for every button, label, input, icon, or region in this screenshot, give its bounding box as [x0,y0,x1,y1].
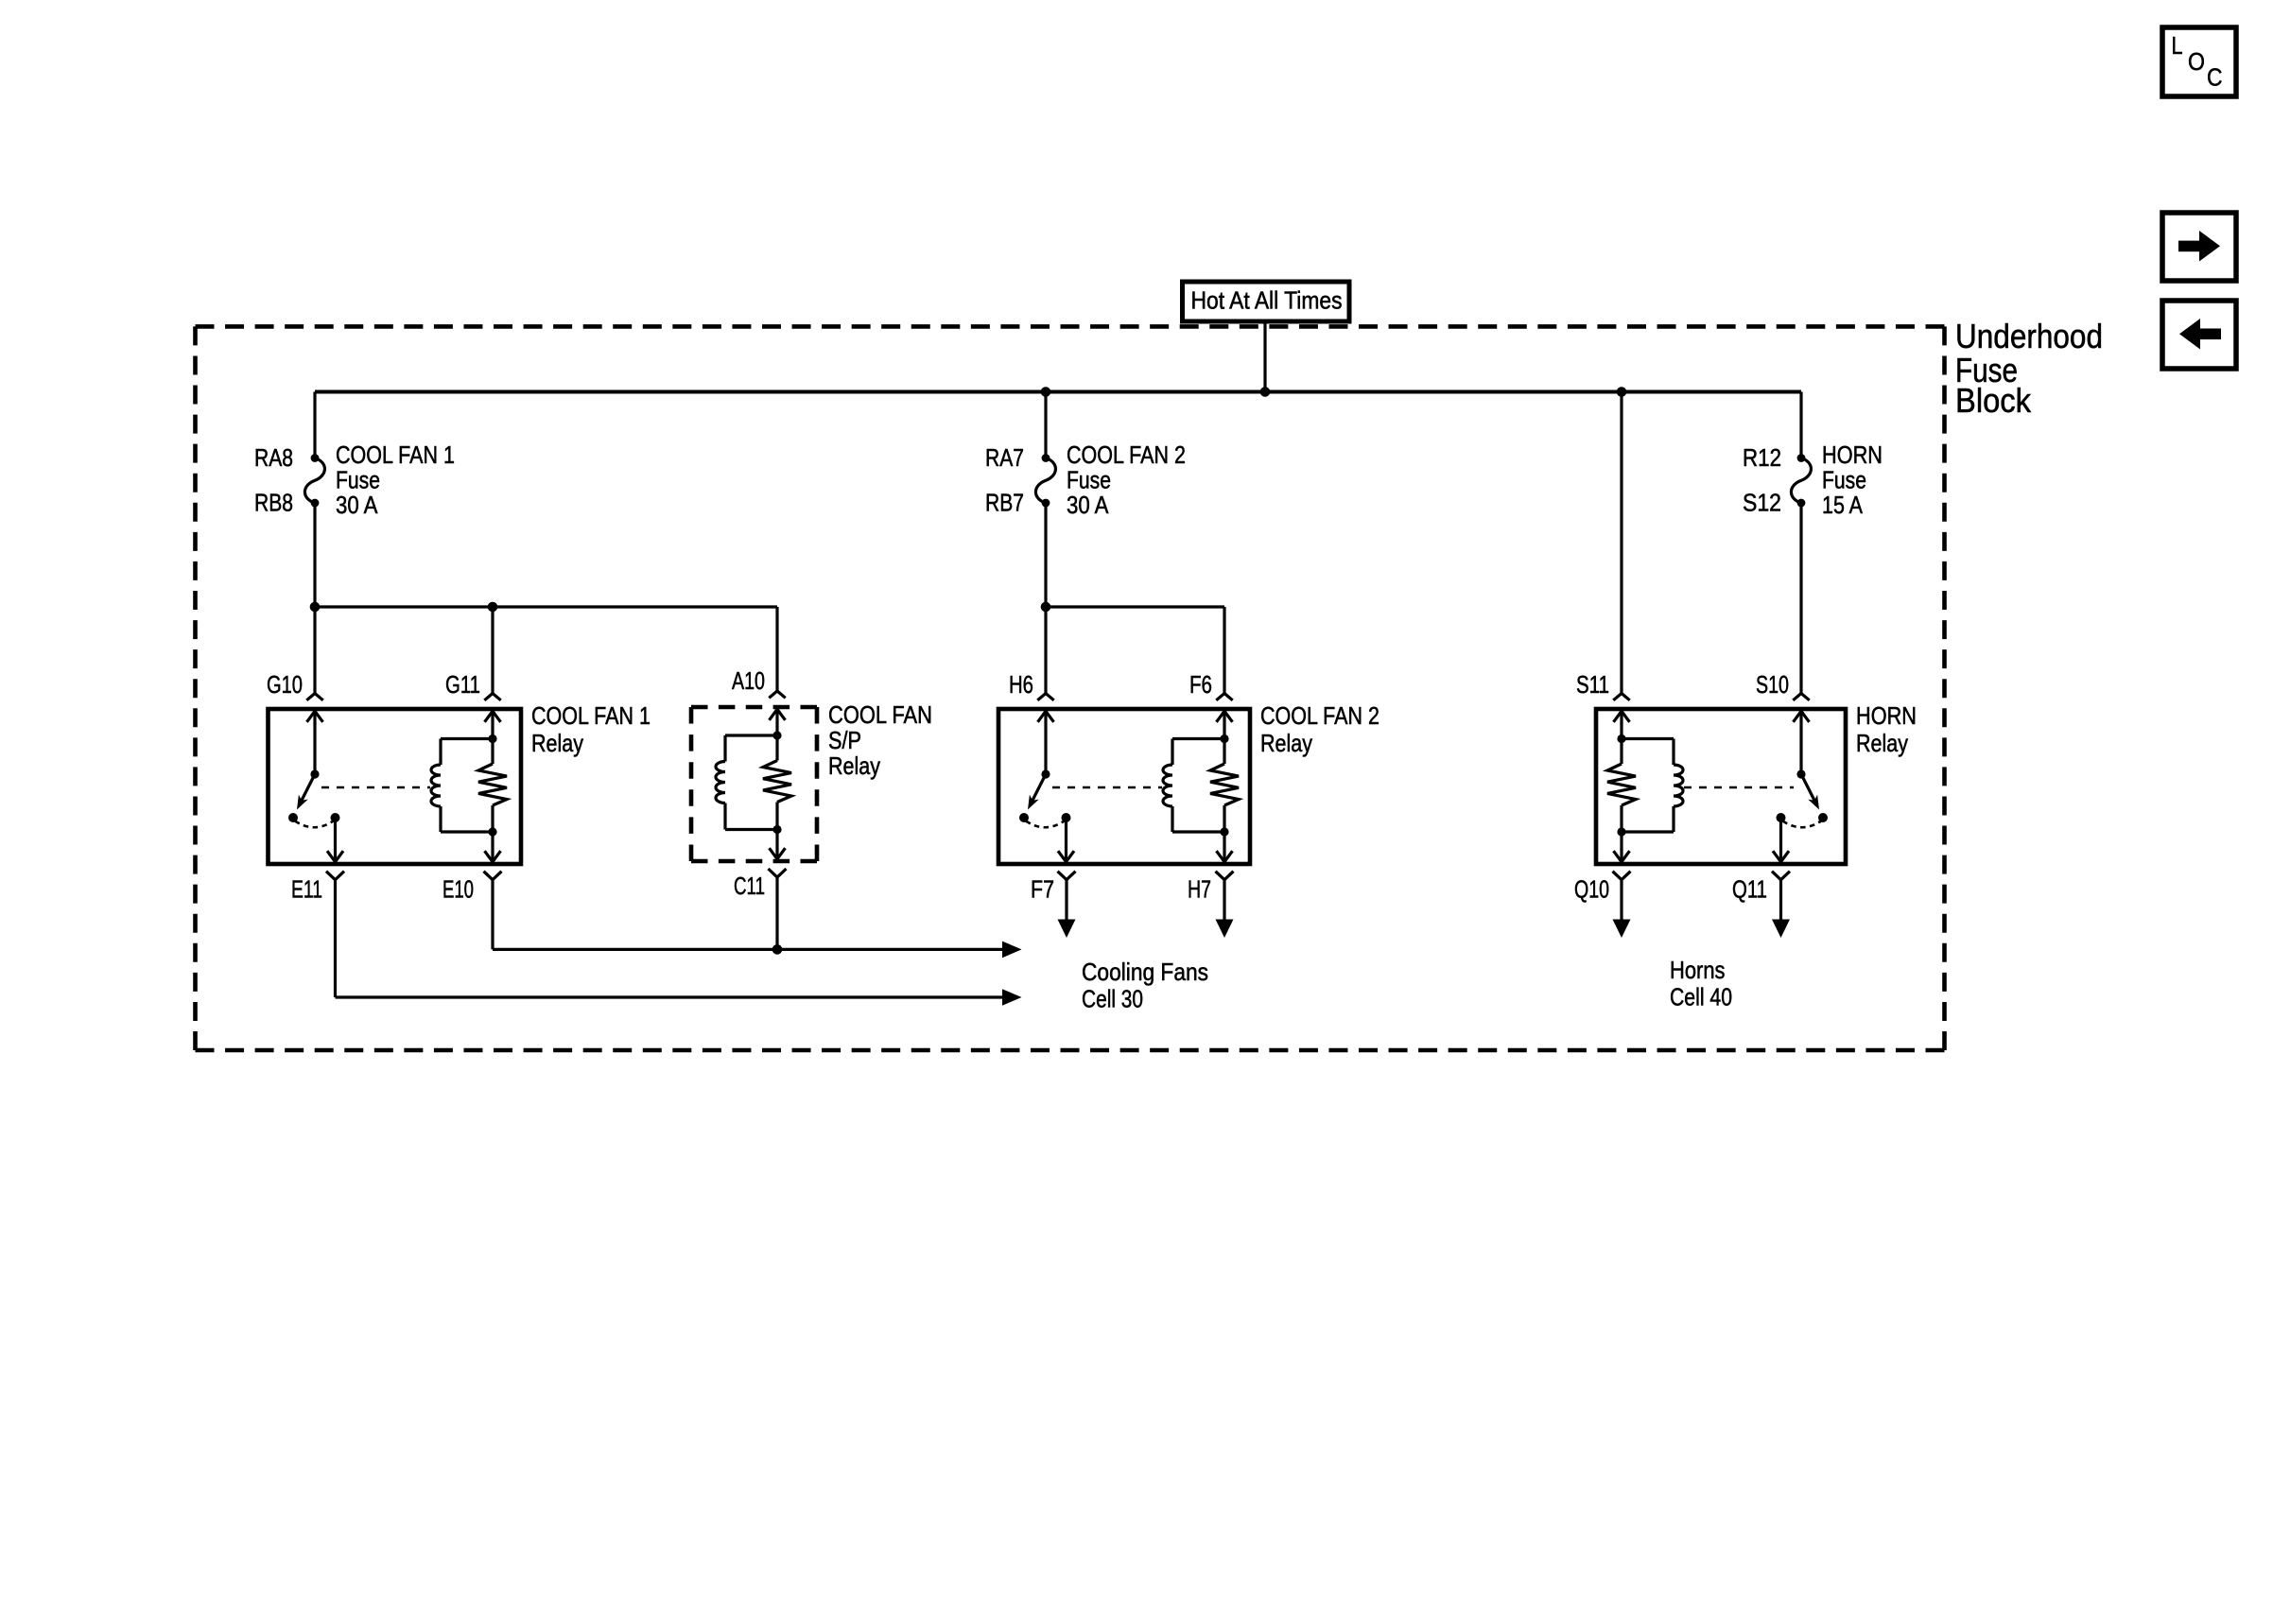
svg-text:Cell 30: Cell 30 [1082,985,1143,1013]
svg-text:E11: E11 [291,875,322,904]
svg-text:Relay: Relay [828,752,880,780]
svg-text:Relay: Relay [1260,729,1312,757]
svg-text:Q10: Q10 [1574,875,1609,904]
svg-text:F6: F6 [1189,670,1212,699]
svg-text:COOL FAN: COOL FAN [828,700,932,729]
svg-text:Underhood: Underhood [1955,317,2103,355]
svg-text:Cell 40: Cell 40 [1670,983,1732,1011]
svg-text:Cooling Fans: Cooling Fans [1082,958,1208,986]
svg-text:S/P: S/P [828,726,861,754]
svg-text:RB8: RB8 [254,489,293,517]
svg-text:Fuse: Fuse [1822,466,1866,494]
svg-text:S10: S10 [1756,670,1789,699]
svg-text:Fuse: Fuse [336,466,380,494]
svg-text:HORN: HORN [1822,441,1883,469]
svg-text:C11: C11 [734,872,765,900]
svg-text:Relay: Relay [1856,729,1908,757]
svg-text:HORN: HORN [1856,701,1917,730]
svg-text:S11: S11 [1576,670,1609,699]
svg-text:30 A: 30 A [1067,491,1109,519]
svg-text:C: C [2207,63,2223,92]
svg-text:COOL FAN 2: COOL FAN 2 [1260,701,1379,730]
svg-text:RA7: RA7 [985,443,1024,472]
svg-text:Relay: Relay [531,729,583,757]
svg-text:COOL FAN 1: COOL FAN 1 [531,701,651,730]
svg-text:A10: A10 [732,666,765,695]
svg-text:Q11: Q11 [1732,875,1767,904]
svg-text:15 A: 15 A [1822,491,1864,519]
svg-text:COOL FAN 2: COOL FAN 2 [1067,441,1186,469]
svg-text:S12: S12 [1743,489,1781,517]
svg-text:H7: H7 [1188,875,1211,904]
svg-text:Fuse: Fuse [1067,466,1111,494]
svg-text:COOL FAN 1: COOL FAN 1 [336,441,455,469]
svg-text:H6: H6 [1009,670,1033,699]
svg-text:R12: R12 [1743,443,1781,472]
svg-text:L: L [2172,31,2183,60]
svg-text:30 A: 30 A [336,491,378,519]
svg-text:RB7: RB7 [985,489,1024,517]
svg-text:RA8: RA8 [254,443,293,472]
svg-text:Horns: Horns [1670,956,1726,984]
svg-text:G10: G10 [267,670,303,699]
svg-text:E10: E10 [442,875,474,904]
svg-text:F7: F7 [1031,875,1054,904]
svg-text:Hot At All Times: Hot At All Times [1191,286,1343,315]
svg-text:G11: G11 [445,670,480,699]
svg-text:O: O [2188,47,2205,76]
svg-text:Block: Block [1955,381,2032,420]
